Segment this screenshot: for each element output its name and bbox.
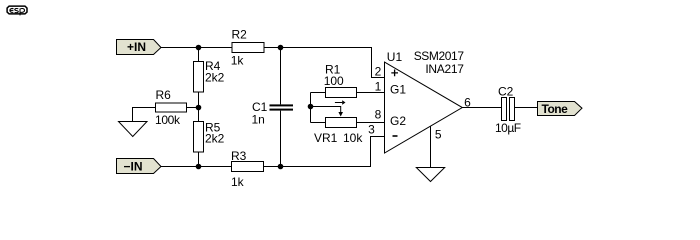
node junction C1 top: [278, 45, 284, 51]
wire VR1 wiper: [311, 107, 341, 113]
op-amp U1: [385, 49, 465, 153]
svg-text:10k: 10k: [343, 131, 363, 145]
wire C2 to Tone: [515, 107, 538, 109]
wire R2 to op-amp pin 2 (top rail right): [264, 48, 385, 78]
node junction -IN/R5: [196, 164, 202, 170]
resistor R2: [231, 28, 264, 68]
svg-text:G2: G2: [390, 114, 406, 128]
node junction wiper: [308, 104, 314, 110]
node junction R6: [196, 105, 202, 111]
wire pin 5 to ground: [430, 126, 432, 167]
wire R1/VR1 left vertical: [310, 93, 312, 123]
wiper direction arrow: [335, 102, 342, 104]
wire R4 bottom to R5 top: [198, 92, 200, 122]
ground (left): [119, 122, 148, 137]
svg-text:100k: 100k: [155, 113, 181, 127]
wire -IN to R3 (bottom rail left): [161, 166, 232, 168]
svg-text:2k2: 2k2: [205, 70, 225, 84]
capacitor C2: [495, 84, 521, 135]
svg-text:5: 5: [435, 128, 442, 142]
svg-text:INA217: INA217: [425, 62, 464, 76]
wire R5 bottom lead: [198, 152, 200, 167]
wire R6 left to ground: [133, 108, 156, 123]
resistor R5: [194, 120, 225, 152]
svg-text:U1: U1: [387, 50, 403, 64]
svg-text:Tone: Tone: [542, 102, 569, 116]
connector +IN: [117, 40, 162, 55]
svg-text:+IN: +IN: [127, 40, 146, 54]
node junction C1 bottom: [278, 164, 284, 170]
svg-text:2: 2: [375, 65, 382, 79]
svg-text:−IN: −IN: [124, 160, 143, 174]
svg-text:1: 1: [375, 80, 382, 94]
svg-text:3: 3: [368, 123, 375, 137]
svg-text:2k2: 2k2: [205, 132, 225, 146]
svg-text:C2: C2: [498, 84, 514, 98]
svg-text:8: 8: [375, 108, 382, 122]
wire R4 top lead: [198, 48, 200, 62]
resistor R4: [194, 59, 225, 92]
svg-text:10µF: 10µF: [495, 121, 521, 135]
esp logo: [7, 6, 27, 15]
svg-text:1n: 1n: [252, 113, 265, 127]
svg-text:R2: R2: [232, 28, 248, 42]
svg-text:VR1: VR1: [314, 131, 338, 145]
node junction +IN/R4: [196, 45, 202, 51]
svg-text:G1: G1: [390, 82, 406, 96]
connector -IN: [117, 159, 162, 174]
svg-text:R3: R3: [231, 149, 247, 163]
resistor R3: [231, 149, 264, 189]
svg-text:1k: 1k: [231, 53, 245, 67]
wire R6 right lead: [187, 107, 199, 109]
svg-text:100: 100: [324, 74, 344, 88]
wire op-amp output to C2: [462, 107, 501, 109]
potentiometer VR1: [311, 118, 385, 146]
svg-text:1k: 1k: [231, 175, 245, 189]
wire +IN to R2 (top rail left): [161, 47, 232, 49]
connector Tone: [538, 102, 583, 116]
resistor R1: [311, 63, 385, 98]
capacitor C1: [252, 48, 294, 167]
svg-text:R6: R6: [156, 88, 172, 102]
resistor R6: [155, 88, 187, 127]
ground (op-amp pin 5): [416, 168, 444, 182]
wire R3 to op-amp pin 3 (bottom rail right): [264, 137, 385, 167]
